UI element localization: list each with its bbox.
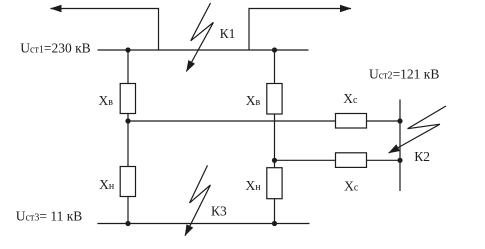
fault arrow K1 (186, 3, 213, 72)
resistor Xs lower (336, 153, 367, 168)
resistor Xn right (267, 168, 282, 199)
junction bus121 lower (397, 158, 402, 163)
wire left branch middle (127, 114, 129, 167)
junction star right (272, 158, 277, 163)
junction bus230 right (272, 47, 277, 52)
resistor Xv left (120, 84, 135, 114)
wire system arrow left top (51, 9, 159, 51)
svg-text:Хн: Хн (246, 178, 262, 193)
junction star left (125, 118, 130, 123)
wire left branch upper (127, 50, 129, 84)
svg-text:Uст2=121 кВ: Uст2=121 кВ (369, 67, 439, 82)
svg-text:Хв: Хв (246, 93, 261, 108)
svg-text:К3: К3 (211, 203, 227, 218)
svg-text:Хн: Хн (99, 177, 115, 192)
wire right branch lower (274, 199, 276, 224)
svg-text:К1: К1 (220, 26, 236, 41)
wire left branch lower (127, 197, 129, 224)
wire right branch middle (274, 114, 276, 168)
wire system arrow right top (249, 9, 351, 51)
wire bus 11kV (97, 223, 309, 225)
junction bus11 right (272, 221, 277, 226)
wire middle lower 121kV link (275, 159, 401, 161)
svg-text:Uст1=230 кВ: Uст1=230 кВ (20, 40, 90, 55)
junction bus230 left (125, 47, 130, 52)
fault arrow K2 (389, 106, 446, 153)
svg-text:Хс: Хс (344, 179, 359, 194)
resistor Xv right (267, 84, 282, 115)
fault arrow K3 (185, 165, 210, 235)
svg-text:К2: К2 (414, 149, 430, 164)
svg-text:Хв: Хв (99, 93, 114, 108)
resistor Xn left (120, 167, 135, 197)
wire middle upper 121kV link (128, 120, 400, 122)
svg-text:Хс: Хс (343, 91, 358, 106)
junction bus11 left (125, 221, 130, 226)
svg-text:Uст3= 11 кВ: Uст3= 11 кВ (16, 209, 83, 224)
junction bus121 upper (397, 118, 402, 123)
wire bus 121kV vertical (399, 100, 401, 192)
wire right branch upper (274, 50, 276, 84)
wire bus 230kV (98, 49, 309, 51)
resistor Xs upper (336, 114, 367, 129)
